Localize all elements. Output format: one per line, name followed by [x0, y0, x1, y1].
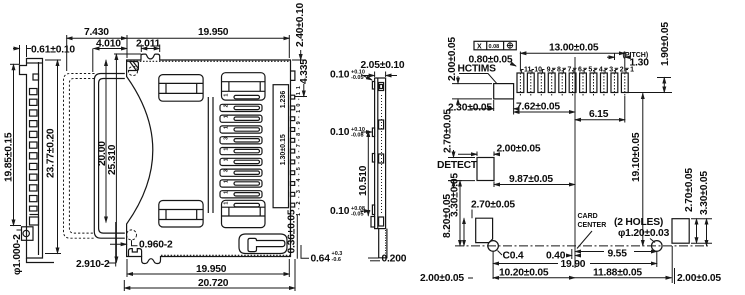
dim 19.85±0.15: [10, 63, 20, 65]
dim 9.87±0.05: [493, 182, 495, 188]
window W3 top-right: [222, 73, 266, 100]
dim 9.55: [575, 251, 604, 253]
finger row 7: [220, 158, 262, 165]
boss top-left dashed circle: [128, 66, 137, 75]
dim 10.20±0.05 and 11.88±0.05: [671, 246, 673, 283]
svg-text:2.70±0.05: 2.70±0.05: [684, 168, 695, 212]
main body outline: [127, 54, 291, 263]
svg-text:6: 6: [578, 66, 582, 73]
side view bottom foot: [27, 258, 55, 263]
svg-text:X: X: [477, 44, 482, 51]
svg-text:φ1.000-2: φ1.000-2: [12, 234, 23, 275]
svg-text:CENTER: CENTER: [578, 222, 607, 229]
svg-text:1: 1: [224, 126, 230, 129]
svg-text:0.200: 0.200: [382, 254, 407, 265]
svg-text:2.70±0.05: 2.70±0.05: [443, 109, 454, 153]
FOOTPRINT GROUP: [420, 22, 721, 284]
dim 23.77±0.20: [45, 59, 61, 61]
bottom edge serration: [161, 254, 290, 256]
svg-text:2.910-2: 2.910-2: [76, 259, 110, 270]
pad 8: [548, 73, 555, 93]
dim 6.15: [624, 96, 626, 123]
finger row 10: [220, 191, 262, 198]
svg-text:3: 3: [224, 169, 230, 172]
svg-text:DETECT: DETECT: [437, 160, 478, 171]
pad 10: [527, 73, 534, 93]
finger row 4: [220, 126, 262, 133]
svg-text:0.08: 0.08: [489, 44, 500, 50]
svg-text:1: 1: [224, 158, 230, 161]
side view inner wall line: [38, 62, 40, 255]
SECTION VIEW GROUP: [330, 60, 407, 265]
svg-text:1-2-3-4-5-6-7-8-9-10-11: 1-2-3-4-5-6-7-8-9-10-11: [296, 86, 302, 216]
dim 0.64: [301, 245, 309, 258]
right hole circle: [652, 241, 663, 252]
window W4 bottom-right: [222, 200, 266, 227]
finger row 5: [220, 137, 262, 144]
section inner contacts: [379, 83, 384, 91]
side view contact pins ladder: [30, 89, 38, 212]
dim 20.00 inner: [105, 60, 107, 222]
pad 9: [538, 73, 545, 93]
rail line left of fingers: [207, 97, 209, 213]
svg-text:13.00±0.05: 13.00±0.05: [549, 43, 599, 54]
svg-text:2.40±0.10: 2.40±0.10: [295, 3, 306, 47]
pad 7: [559, 73, 566, 93]
finger row 3: [220, 115, 262, 122]
svg-text:19.950: 19.950: [198, 27, 229, 38]
dim 0.960-2 leader: [132, 240, 138, 246]
section bottom leg: [379, 229, 387, 258]
svg-text:2: 2: [224, 104, 230, 107]
svg-text:19.85±0.15: 19.85±0.15: [4, 132, 15, 182]
svg-text:10.20±0.05: 10.20±0.05: [499, 268, 549, 279]
svg-text:1: 1: [224, 191, 230, 194]
switch pad: [494, 84, 514, 99]
window W2 bottom-left: [159, 201, 203, 228]
card stop spring inside slot: [248, 238, 285, 251]
svg-text:19.950: 19.950: [196, 264, 227, 275]
pads row: [517, 66, 634, 95]
left hole circle: [488, 241, 499, 252]
side view switch tail: [33, 74, 39, 80]
svg-text:7.430: 7.430: [84, 27, 109, 38]
svg-text:9: 9: [547, 66, 551, 73]
svg-text:3.30±0.05: 3.30±0.05: [699, 171, 710, 215]
dim 2.00±0.05 bottom-right: [674, 268, 676, 284]
dim 13.00±0.05: [519, 52, 521, 71]
terminal strip tall box: [273, 85, 288, 208]
svg-text:1: 1: [224, 94, 230, 97]
pad 4: [590, 73, 597, 93]
window W1 top-left: [159, 75, 203, 102]
svg-text:9.87±0.05: 9.87±0.05: [509, 174, 553, 185]
dim 2.011: [140, 45, 142, 53]
svg-text:HCTIMS: HCTIMS: [458, 64, 497, 75]
dim 10.510: [367, 131, 369, 216]
side view mounting post phi1.000: [22, 227, 34, 241]
svg-text:23.77±0.20: 23.77±0.20: [46, 128, 57, 178]
svg-text:6.15: 6.15: [589, 109, 609, 120]
side view body outline: [20, 59, 43, 259]
pad 11: [517, 73, 524, 93]
svg-text:1.236: 1.236: [280, 91, 287, 109]
right edge top tab: [291, 71, 295, 80]
card phantom dashed outline: [64, 74, 95, 239]
pad 6: [569, 73, 576, 93]
dim 2.00±0.05 detect: [476, 152, 478, 157]
svg-text:-0.05: -0.05: [351, 75, 364, 81]
svg-text:CARD: CARD: [578, 213, 598, 220]
dim 7.62±0.05: [513, 100, 515, 115]
svg-text:11.88±0.05: 11.88±0.05: [593, 268, 642, 279]
boss top-left hatched block: [129, 62, 139, 71]
dim 0.61±0.10: [19, 45, 21, 64]
svg-text:(2 HOLES): (2 HOLES): [614, 217, 663, 228]
section left tabs: [372, 82, 374, 90]
right bottom pad: [672, 219, 689, 244]
pad 2: [611, 73, 618, 93]
dim 19.90: [492, 252, 494, 280]
boss bottom-left dashed circle 0.960-2: [127, 230, 137, 240]
pad 1: [621, 73, 628, 93]
svg-text:11: 11: [524, 66, 532, 73]
svg-text:1: 1: [224, 180, 230, 183]
dim 19.950 top: [288, 35, 290, 58]
SIDE VIEW GROUP: [4, 45, 76, 276]
left bottom pad with chamfer: [476, 218, 493, 242]
feature control frame: [474, 41, 516, 50]
svg-text:C0.4: C0.4: [503, 251, 524, 262]
dim 25.310 inner: [114, 53, 141, 55]
svg-text:-0.05: -0.05: [351, 212, 364, 218]
svg-text:1.90±0.05: 1.90±0.05: [660, 22, 671, 66]
pad 3: [601, 73, 608, 93]
MAIN VIEW GROUP: [64, 3, 343, 291]
svg-text:25.310: 25.310: [107, 144, 118, 175]
svg-text:-0.08: -0.08: [351, 133, 364, 139]
svg-text:φ1.20±0.03: φ1.20±0.03: [618, 228, 670, 239]
card phantom solid outline: [94, 74, 125, 239]
dim phi1.000-2: [17, 229, 22, 231]
svg-text:10: 10: [534, 66, 542, 73]
contact fingers rows: [220, 94, 262, 207]
svg-text:0.61±0.10: 0.61±0.10: [31, 45, 75, 56]
svg-text:19.90: 19.90: [561, 259, 586, 270]
svg-text:0.36±0.05: 0.36±0.05: [287, 209, 298, 253]
svg-text:0.10: 0.10: [330, 127, 350, 138]
card center vertical line: [574, 57, 576, 268]
finger row 1: [234, 95, 260, 98]
svg-text:2.00±0.05: 2.00±0.05: [447, 37, 458, 81]
svg-text:2: 2: [620, 66, 624, 73]
svg-text:3: 3: [224, 137, 230, 140]
pin stubs right: [291, 95, 295, 207]
svg-text:19.10±0.05: 19.10±0.05: [631, 132, 642, 182]
svg-text:-0.6: -0.6: [332, 257, 341, 263]
dim 0.200: [368, 257, 379, 259]
svg-text:4.010: 4.010: [96, 39, 121, 50]
svg-text:9.55: 9.55: [608, 249, 628, 260]
detect pad: [477, 158, 494, 181]
svg-text:2.30±0.05: 2.30±0.05: [448, 103, 492, 114]
svg-text:20.720: 20.720: [198, 278, 229, 289]
section body: [375, 78, 386, 229]
dim 4.010: [92, 49, 94, 73]
svg-text:2.011: 2.011: [136, 39, 161, 50]
finger row 6: [220, 148, 262, 155]
finger row 9: [220, 180, 262, 187]
svg-text:1: 1: [224, 148, 230, 151]
switch leader: [459, 74, 497, 84]
svg-text:1: 1: [224, 115, 230, 118]
svg-text:1: 1: [224, 202, 230, 205]
svg-text:1.30±0.15: 1.30±0.15: [280, 134, 287, 165]
center line dash-dot: [455, 245, 708, 247]
svg-text:0.960-2: 0.960-2: [139, 240, 173, 251]
finger row 11: [234, 203, 260, 206]
svg-text:0.10: 0.10: [330, 70, 350, 81]
svg-text:1.30: 1.30: [630, 58, 650, 69]
svg-text:10.510: 10.510: [358, 165, 369, 196]
svg-text:0.10: 0.10: [330, 206, 350, 217]
finger row 2: [220, 104, 262, 111]
top edge serration: [127, 60, 290, 62]
svg-text:8: 8: [557, 66, 561, 73]
svg-text:3.30±0.05: 3.30±0.05: [450, 173, 461, 217]
svg-text:3: 3: [609, 66, 613, 73]
svg-text:2.05±0.10: 2.05±0.10: [361, 60, 405, 71]
svg-text:2.70±0.05: 2.70±0.05: [471, 200, 515, 211]
side view top cap line: [27, 62, 43, 64]
svg-text:2.00±0.05: 2.00±0.05: [677, 273, 721, 284]
bottom right slot: [239, 234, 287, 254]
bottom-left castle bump: [129, 249, 142, 257]
dim 7.430 top: [66, 35, 68, 71]
side view lower inner detail: [30, 214, 39, 216]
svg-text:4.335: 4.335: [299, 59, 310, 84]
svg-text:2.00±0.05: 2.00±0.05: [420, 273, 464, 284]
dim 19.950 bottom: [126, 259, 128, 277]
svg-text:4: 4: [599, 66, 603, 73]
svg-text:7.62±0.05: 7.62±0.05: [516, 102, 560, 113]
svg-text:2.00±0.05: 2.00±0.05: [497, 144, 541, 155]
svg-text:5: 5: [588, 66, 592, 73]
dim 2.910-2: [115, 222, 117, 267]
dim 2.30±0.05: [493, 100, 495, 111]
finger row 8: [220, 169, 262, 176]
svg-text:7: 7: [568, 66, 572, 73]
dim 20.720 bottom: [123, 280, 125, 291]
pad 5: [580, 73, 587, 93]
svg-text:0.64: 0.64: [311, 254, 331, 265]
